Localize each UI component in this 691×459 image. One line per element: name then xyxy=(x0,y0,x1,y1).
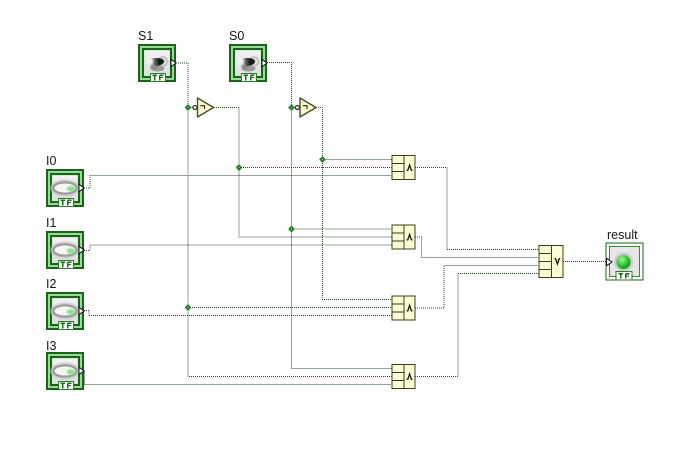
junction NOT1-AND1 tap xyxy=(235,164,243,172)
boolean control I2 xyxy=(46,292,84,330)
wire NOT2 out down to AND3 in1 xyxy=(316,108,392,300)
wire I3 to AND4 in3 xyxy=(84,372,392,385)
wire S0 branch down to AND4 in1 xyxy=(292,108,393,369)
junction S1-AND3 tap xyxy=(184,304,192,312)
wire S1 out to NOT1 and down xyxy=(176,63,193,108)
svg-text:S0: S0 xyxy=(229,29,244,43)
junction S0-NOT2 tap xyxy=(288,104,296,112)
NOT gate U1 invert S1 xyxy=(193,98,214,117)
boolean control I3 xyxy=(46,352,84,390)
wire I1 to AND2 in3 xyxy=(84,245,392,251)
boolean control S0 xyxy=(229,44,267,82)
boolean control I1 xyxy=(46,231,84,269)
AND gate U6 AND I3 term xyxy=(392,365,415,389)
wire S0 out to NOT2 and down xyxy=(267,63,296,108)
AND gate U5 AND I2 term xyxy=(392,296,415,320)
svg-text:I1: I1 xyxy=(46,216,56,230)
wire S0 branch to AND2 in1 xyxy=(292,228,393,230)
svg-text:I0: I0 xyxy=(46,154,56,168)
boolean control I0 xyxy=(46,169,84,207)
AND gate U3 AND I0 term xyxy=(392,156,415,180)
wire S1 branch down to AND4 in2 xyxy=(188,108,392,377)
wire S1 branch to AND3 in2 xyxy=(188,307,392,309)
OR gate U7 OR combine xyxy=(539,246,563,278)
junction NOT2-AND1 tap xyxy=(319,156,327,164)
wire OR out to result xyxy=(563,261,607,263)
wire NOT2 branch to AND1 in1 xyxy=(323,159,393,161)
svg-text:S1: S1 xyxy=(138,29,153,43)
wire I0 to AND1 in3 xyxy=(84,176,392,189)
wire NOT1 branch to AND1 in2 xyxy=(239,167,392,169)
wire AND2 out to OR in2 xyxy=(415,237,539,258)
svg-text:I2: I2 xyxy=(46,277,56,291)
boolean control S1 xyxy=(138,44,176,82)
NOT gate U2 invert S0 xyxy=(295,98,316,117)
wire AND3 out to OR in3 xyxy=(415,266,539,309)
wire I2 to AND3 in3 xyxy=(84,311,392,316)
wire AND1 out to OR in1 xyxy=(415,168,539,250)
svg-text:I3: I3 xyxy=(46,339,56,353)
junction S1-NOT1 tap xyxy=(184,104,192,112)
junction S0-AND2 tap xyxy=(288,225,296,233)
svg-text:result: result xyxy=(607,228,638,242)
boolean indicator result xyxy=(606,243,643,280)
wire AND4 out to OR in4 xyxy=(415,274,539,377)
AND gate U4 AND I1 term xyxy=(392,225,415,249)
wire NOT1 out down to AND2 in2 xyxy=(214,108,392,238)
